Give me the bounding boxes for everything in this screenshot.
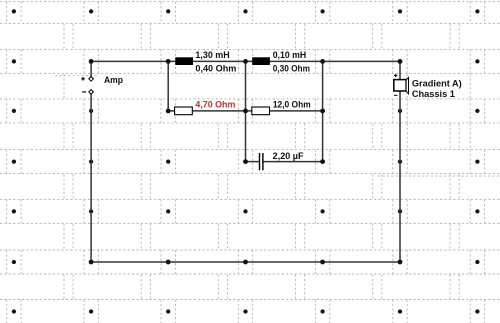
svg-text:2,20 µF: 2,20 µF [273,151,304,161]
wire capacitor row right [263,161,322,163]
node A (amp+ / top rail) [89,59,94,64]
svg-text:0,30 Ohm: 0,30 Ohm [273,63,310,73]
wire right vertical (speaker branch) [399,61,401,262]
junction bottom rail 1 [166,260,171,265]
wire second row horizontal [168,110,322,112]
wire amp negative lead / left vertical down [90,94,92,263]
svg-text:12,0 Ohm: 12,0 Ohm [273,99,311,109]
capacitor C1 plates [259,153,261,170]
svg-text:1,30 mH: 1,30 mH [195,50,229,60]
wire bottom horizontal [91,261,400,263]
speaker plus sign [394,74,397,77]
junction bottom rail 2 [243,260,248,265]
node F (amp- / bottom rail) [89,260,94,265]
svg-text:0,40 Ohm: 0,40 Ohm [195,63,236,73]
node D (L2/R2/C1 right) [320,59,325,64]
junction C second row [243,109,248,114]
svg-text:0,10 mH: 0,10 mH [273,50,307,60]
junction bottom rail 3 [320,260,325,265]
wire vertical at node C [245,61,247,161]
wire vertical at node B [167,61,169,111]
amp terminal - (diamond) [89,90,94,95]
node B (L1/R1 left) [166,59,171,64]
amp terminal + (diamond) [89,77,94,82]
amp minus sign [82,91,86,93]
junction C capacitor row [243,159,248,164]
speaker chassis square [394,80,406,91]
inductor L2 0,10 mH [252,57,270,65]
resistor R1 4,70 Ohm [175,107,193,115]
wire capacitor row left [246,161,260,163]
junction D capacitor row [320,159,325,164]
junction B second row [166,109,171,114]
resistor R2 12,0 Ohm [252,107,270,115]
node G (speaker -) [398,260,403,265]
inductor L1 1,30 mH [175,57,193,65]
junction D second row [320,109,325,114]
svg-text:4,70 Ohm: 4,70 Ohm [195,99,235,109]
amp plus sign [81,77,85,81]
wire top horizontal (amp node to speaker branch) [91,60,400,62]
node C (L1/R1 right, L2/R2/C1 left) [243,59,248,64]
svg-text:Gradient A): Gradient A) [412,79,462,89]
svg-text:Amp: Amp [104,75,123,85]
speaker minus sign [394,94,397,96]
svg-text:Chassis 1: Chassis 1 [412,89,455,99]
speaker cone [406,78,408,94]
node E (speaker +) [398,59,403,64]
wire vertical at node D [322,61,324,161]
wire amp positive lead [90,61,92,77]
